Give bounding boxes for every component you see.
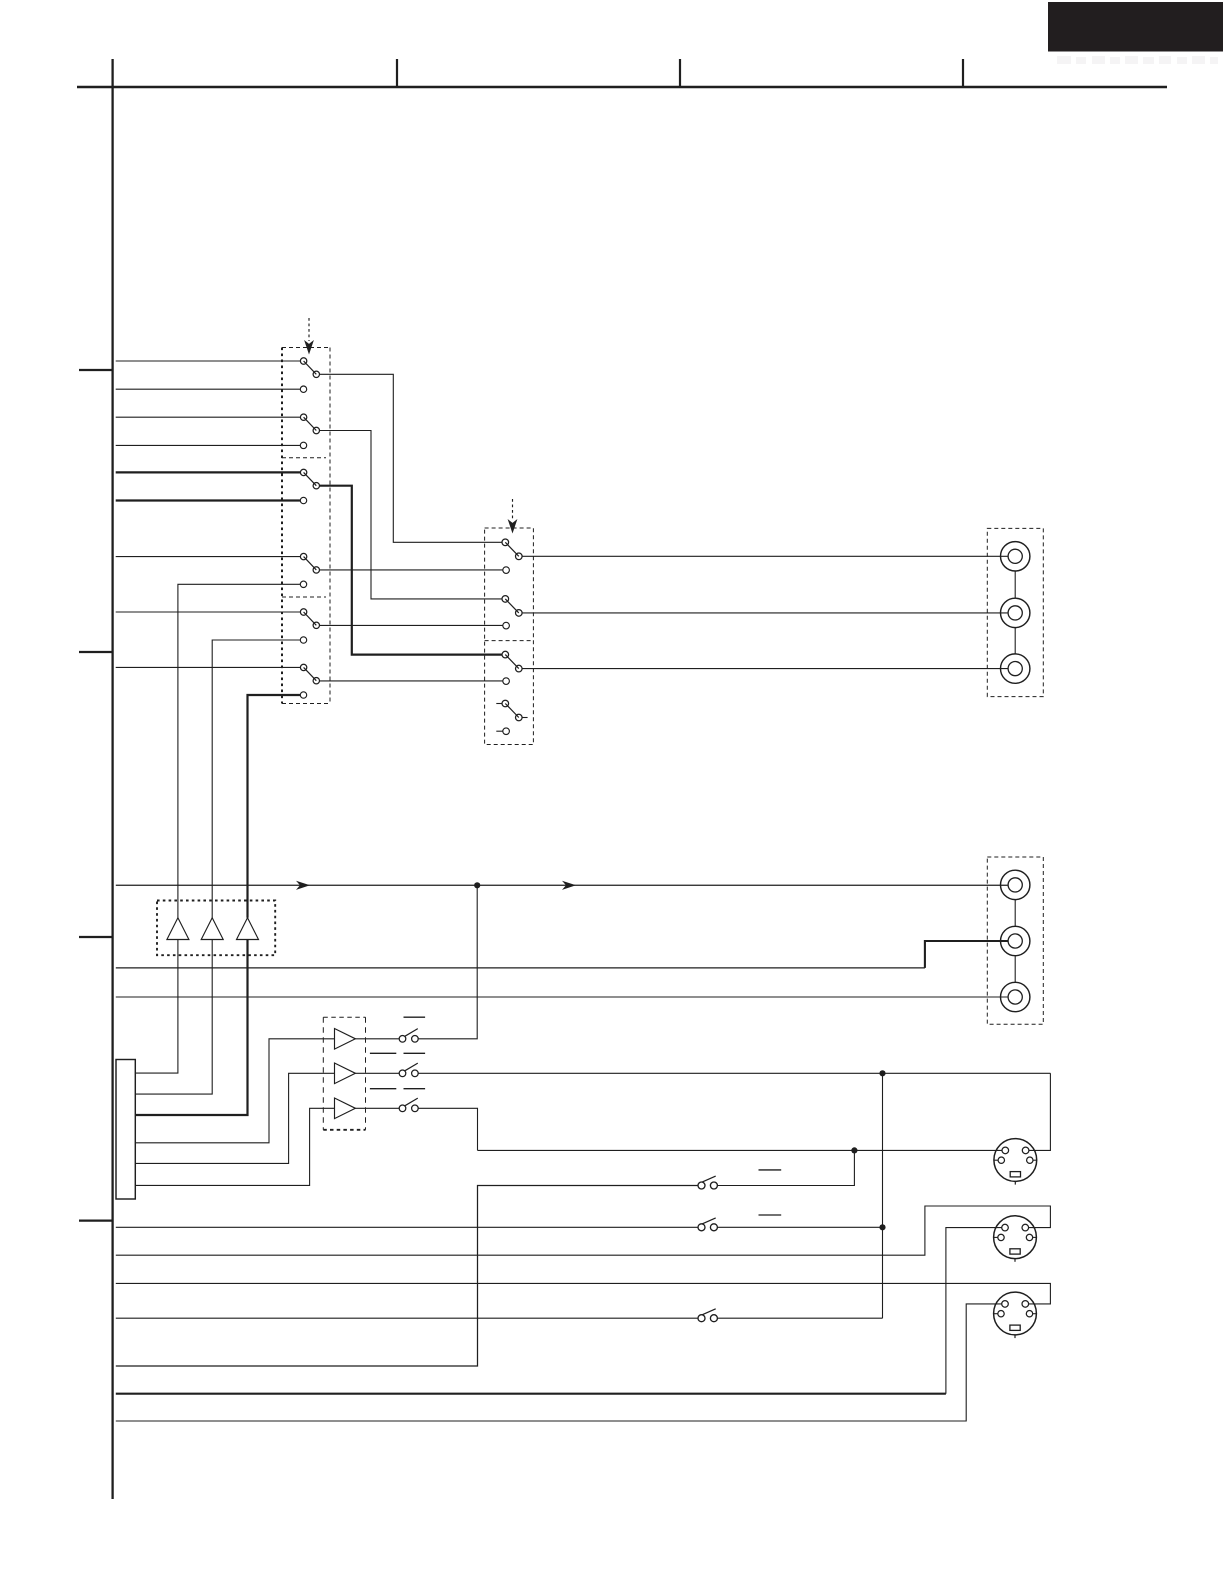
node C bus junction (851, 1147, 857, 1153)
wire Y return 2 (135, 940, 212, 1095)
wire to record jack 2 (116, 967, 925, 969)
select arrow into S902 (508, 499, 518, 534)
buffer Q902-1 (335, 1029, 356, 1050)
contact S901-3b (300, 497, 306, 503)
wire J902-1 to J902-2 (1014, 900, 1016, 927)
node video bus junction (474, 882, 480, 888)
wire S902-1 out to monitor video jack (522, 555, 1008, 557)
wire P901-6 to buffer 3 (135, 1108, 334, 1185)
switch S904-1 (698, 1176, 717, 1189)
switch S903-2 (399, 1063, 418, 1077)
title block (black label) (1048, 2, 1223, 52)
top grid tick 3 (962, 59, 964, 87)
wire S903-1 out to video bus (418, 885, 477, 1039)
wire Y bus vertical (882, 1073, 884, 1318)
switch S901-4 (300, 553, 319, 573)
top grid tick 1 (396, 59, 398, 87)
switch S901-1 (300, 358, 319, 378)
wire buffer1 to S903-1 (355, 1038, 399, 1040)
node Y bus junction (879, 1070, 885, 1076)
wire S902-2 out to monitor video jack 2 (522, 612, 1008, 614)
select arrow into S901 (304, 318, 314, 355)
contact S901-4b (300, 581, 306, 587)
gang link mark S904-1 (759, 1169, 782, 1171)
gang link mark S904-2 (759, 1214, 782, 1216)
switch S902-1 (502, 539, 522, 560)
wire Y return 1 (135, 940, 178, 1074)
wire S902-3 out to monitor video jack 3 (522, 668, 1008, 670)
wire P901-4 to buffer 1 (135, 1039, 334, 1143)
wire J902-2 to J902-3 (1014, 956, 1016, 983)
jack group J902 dashed outline (987, 857, 1043, 1024)
connector P901 (116, 1060, 135, 1200)
left grid tick 3 (79, 936, 113, 938)
wire input row 6 (bold) (116, 499, 301, 501)
RCA jack J902-1 (1001, 870, 1030, 899)
wire riser to record jack 2 (bold) (925, 941, 1008, 968)
switch S901-5 (300, 609, 319, 629)
contact S902-1b (503, 567, 510, 574)
wire input row 7 (116, 556, 301, 558)
top border line (77, 86, 1167, 89)
wire S904-1 out (717, 1150, 854, 1185)
wire S901-5 out to S902-2b (320, 624, 503, 626)
wire input row 9 (116, 611, 301, 613)
wire riser to J904 pin3 (946, 1228, 1002, 1394)
arrowhead video bus 2 (562, 881, 576, 890)
node S904-2 junction (879, 1224, 885, 1230)
left grid tick 1 (79, 369, 113, 371)
wire S901-2 out to S902-2 (320, 431, 502, 599)
buffer Q901-3 (237, 918, 259, 940)
RCA jack J901-2 (1001, 598, 1030, 627)
RCA jack J902-2 (1001, 926, 1030, 955)
RCA jack J901-1 (1001, 542, 1030, 571)
faint printed text under title block (1057, 56, 1218, 64)
wire video bus (116, 884, 1008, 886)
wire S901-3 out to S902-3 (bold) (320, 486, 502, 655)
gang link marks S903 mid2 (370, 1088, 396, 1090)
wire S901-1 out to S902-1 (320, 374, 502, 542)
gang link mark S903 top (404, 1016, 426, 1018)
buffer Q901-2 (201, 918, 223, 940)
wire S904-1 input (116, 1186, 698, 1367)
wire J901-2 to J901-3 (1014, 628, 1016, 654)
wire Y bus drop to J903 pin4 (1029, 1073, 1051, 1150)
wire input row 2 (116, 388, 301, 390)
wire input row 11 (116, 666, 301, 668)
switch S901-6 (300, 664, 319, 684)
wire to record jack 3 (116, 996, 1008, 998)
switch block S902 dashed outline (485, 528, 534, 745)
S-video jack J903 (994, 1139, 1037, 1185)
wire P901-5 to buffer 2 (135, 1073, 334, 1163)
S-video jack J904 (994, 1216, 1037, 1262)
wire S903-3 out down (418, 1108, 477, 1150)
wire input row 3 (116, 416, 301, 418)
contact S901-6b (300, 692, 306, 698)
wire input row 1 (116, 360, 301, 362)
wire buffer3 to S903-3 (355, 1107, 399, 1109)
contact S902-3b (503, 678, 510, 685)
top grid tick 2 (679, 59, 681, 87)
left grid tick 4 (79, 1219, 113, 1221)
wire J901-1 to J901-2 (1014, 571, 1016, 598)
switch S901-3 (300, 469, 319, 489)
switch S901-2 (300, 414, 319, 434)
jack group J901 dashed outline (987, 528, 1043, 696)
left grid tick 2 (79, 651, 113, 653)
contact S901-1b (300, 386, 306, 392)
wire input row 4 (116, 444, 301, 446)
switch S902-2 (502, 596, 522, 617)
RCA jack J901-3 (1001, 654, 1030, 683)
wire S904-2 input (116, 1226, 698, 1228)
wire buffer2 to S903-2 (355, 1072, 399, 1074)
arrowhead video bus 1 (296, 881, 310, 890)
wire input row 5 (bold) (116, 471, 301, 473)
S-video jack J905 (994, 1292, 1037, 1338)
switch S904-3 (698, 1309, 717, 1322)
wire C bus to J903 pin3 (478, 1149, 1003, 1151)
buffer Q902-3 (335, 1098, 356, 1119)
switch S903-1 (399, 1029, 418, 1043)
switch S902-3 (502, 651, 522, 672)
wire S901-4 out to S902-1b (320, 569, 503, 571)
wire S904-3 out (717, 1317, 882, 1319)
contact S901-2b (300, 442, 306, 448)
contact S902-2b (503, 622, 510, 629)
wire to J905 pin3 (116, 1304, 1002, 1421)
wire S901-6 out to S902-3b (320, 680, 503, 682)
switch S902-4 (spare) (496, 700, 527, 721)
wire to J905 pin4 (116, 1283, 1051, 1304)
buffer block Q902 dashed outline (323, 1016, 365, 1018)
buffer block Q901 dotted outline (157, 901, 275, 956)
wire Y return 3 (bold) (135, 940, 247, 1116)
switch block S901 dashed outline (282, 348, 330, 704)
switch S903-3 (399, 1098, 418, 1112)
contact S902-4b (spare) (496, 728, 509, 735)
wire S904-2 out (717, 1226, 882, 1228)
contact S901-5b (300, 637, 306, 643)
buffer Q902-2 (335, 1063, 356, 1084)
wire to J904 pin4 (116, 1206, 1051, 1255)
left border line (111, 59, 113, 1499)
RCA jack J902-3 (1001, 982, 1030, 1011)
wire S903-2 out to S-video Y bus (418, 1072, 1050, 1074)
wire to J904 pin3 (bold) (116, 1393, 946, 1395)
wire S904-3 input (116, 1317, 698, 1319)
buffer Q901-1 (167, 918, 189, 940)
gang link marks S903 mid1 (370, 1052, 396, 1054)
switch S904-2 (698, 1218, 717, 1231)
